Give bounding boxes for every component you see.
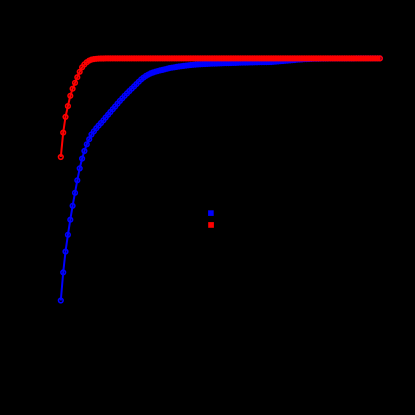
legend marker red bbox=[208, 222, 214, 228]
red data curve (line) bbox=[61, 58, 380, 157]
red data curve markers bbox=[59, 56, 383, 159]
blue data curve (line) bbox=[61, 58, 380, 300]
legend marker blue bbox=[208, 210, 214, 216]
blue data curve markers bbox=[59, 56, 383, 303]
